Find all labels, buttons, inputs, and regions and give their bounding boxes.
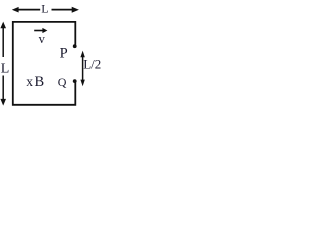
svg-text:P: P <box>60 45 68 61</box>
svg-text:L: L <box>1 62 10 77</box>
svg-text:L: L <box>41 2 48 16</box>
svg-text:v: v <box>39 32 46 46</box>
svg-text:x: x <box>26 74 33 89</box>
svg-text:B: B <box>35 74 45 90</box>
svg-text:L/2: L/2 <box>83 57 101 72</box>
svg-text:Q: Q <box>58 75 67 89</box>
